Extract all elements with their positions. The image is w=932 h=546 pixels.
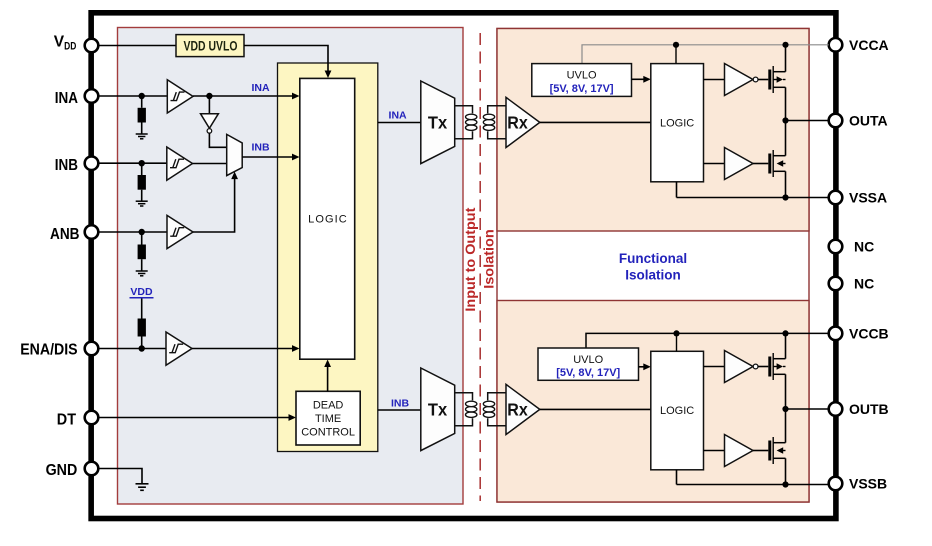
transformer A secondary (483, 106, 506, 139)
svg-text:Input to Output: Input to Output (463, 207, 478, 312)
svg-text:Rx: Rx (507, 113, 528, 133)
svg-text:DT: DT (57, 412, 77, 429)
transmitter Tx A (421, 81, 455, 164)
wire VCCA rail (582, 45, 829, 64)
label Functional Isolation (619, 251, 687, 283)
logic core block (yellow) (278, 63, 378, 452)
output channel B region (orange) (497, 301, 809, 503)
input-side functional block (blue) (118, 28, 464, 505)
transformer B secondary (483, 393, 506, 426)
svg-text:UVLO: UVLO (567, 70, 597, 82)
transistor Q2 low-side A (768, 150, 785, 177)
isolation barrier dashed line (479, 33, 481, 501)
svg-text:INB: INB (391, 398, 410, 410)
output-side outer box (497, 29, 809, 503)
svg-text:INA: INA (251, 82, 270, 94)
wire output node A (785, 45, 787, 72)
pin GND (46, 462, 99, 479)
wire ANB pulldown (141, 232, 143, 245)
wire inverter to mux (209, 133, 226, 147)
svg-text:CONTROL: CONTROL (301, 427, 355, 439)
ground INB (136, 201, 148, 206)
node OUTB (782, 406, 788, 412)
wire mux to LOGIC (242, 156, 295, 158)
svg-text:Functional: Functional (619, 251, 687, 266)
node VCCB-LOGIC B (673, 330, 679, 336)
resistor INB pulldown (138, 175, 146, 190)
wire Rx A to LOGIC A (540, 121, 651, 123)
ground INA (136, 134, 148, 139)
wire ANB pin to buffer (98, 231, 167, 233)
wire VDD pin to VDD UVLO (98, 45, 176, 47)
svg-text:OUTB: OUTB (849, 401, 889, 417)
wire LOGIC A to low driver (704, 163, 725, 165)
wire driver to gate A low (753, 163, 768, 165)
wire VSSB rail (677, 484, 829, 486)
buffer schmitt INB (167, 147, 193, 180)
wire UVLO A to LOGIC A (632, 78, 647, 80)
node ANB junction (139, 229, 145, 235)
wire OUTA (786, 120, 829, 122)
svg-text:OUTA: OUTA (849, 113, 888, 129)
pin NC bottom (829, 276, 875, 292)
transmitter Tx B (421, 368, 455, 451)
transistor Q3 high-side B (768, 353, 785, 380)
pin VCCB (829, 325, 889, 341)
ground ANB (136, 271, 148, 276)
pin VCCA (829, 37, 889, 53)
svg-text:INA: INA (55, 90, 78, 107)
pin VSSA (829, 190, 887, 206)
wire LOGIC B to high driver (704, 366, 725, 368)
wire INA pin to buffer (98, 95, 167, 97)
svg-text:LOGIC: LOGIC (660, 117, 694, 129)
wire OUTB (786, 408, 829, 410)
node VCCA-LOGIC A (673, 42, 679, 48)
svg-text:Tx: Tx (428, 113, 448, 133)
pin VSSB (829, 476, 887, 492)
wire dead time control to LOGIC (327, 364, 329, 391)
svg-text:Isolation: Isolation (482, 229, 497, 289)
pin ANB (50, 225, 98, 243)
wire INB pulldown (141, 163, 143, 175)
svg-text:Rx: Rx (507, 400, 528, 420)
node VCCA-drain A (782, 42, 788, 48)
wire LOGIC A top to VCCA rail (675, 45, 677, 64)
pin NC top (829, 239, 875, 255)
wire dead time control to Tx B (378, 409, 421, 411)
net VDD pullup (130, 286, 154, 298)
wire GND pin to ground (98, 469, 142, 484)
wire LOGIC A to high driver (704, 79, 725, 81)
block VDD UVLO U2 (176, 35, 244, 57)
svg-text:UVLO: UVLO (573, 354, 603, 366)
wire resistor to ground (141, 190, 143, 202)
svg-text:[5V, 8V, 17V]: [5V, 8V, 17V] (550, 83, 614, 95)
wire INA pulldown (141, 96, 143, 108)
svg-text:INA: INA (389, 110, 408, 122)
wire resistor to ground (141, 123, 143, 135)
buffer schmitt ANB (167, 215, 193, 248)
svg-text:VDD UVLO: VDD UVLO (184, 37, 238, 53)
svg-text:VDD: VDD (130, 286, 153, 298)
block LOGIC A (651, 64, 704, 182)
pin OUTB (829, 401, 889, 417)
node ENA junction (139, 345, 145, 351)
wire LOGIC to Tx A (378, 122, 421, 124)
transistor Q1 high-side A (768, 66, 785, 93)
node VSSA (782, 194, 788, 200)
driver A high (inverting) (725, 64, 758, 96)
svg-text:LOGIC: LOGIC (308, 214, 348, 226)
svg-text:VSSB: VSSB (849, 476, 887, 492)
svg-text:VCCB: VCCB (849, 325, 889, 341)
wire LOGIC B to low driver (704, 450, 725, 452)
svg-text:ENA/DIS: ENA/DIS (20, 341, 77, 358)
wire driver to gate A high (758, 79, 768, 81)
driver A low (725, 148, 754, 180)
wire driver to gate B low (753, 450, 768, 452)
svg-text:Isolation: Isolation (625, 268, 681, 283)
wire LOGIC B top to VCCB rail (676, 333, 678, 351)
buffer schmitt ENA/DIS (166, 332, 192, 365)
wire Rx B to LOGIC B (540, 408, 651, 410)
mux U4 (227, 134, 243, 175)
driver B high (inverting) (725, 351, 758, 383)
svg-text:DEAD: DEAD (313, 400, 344, 412)
wire LOGIC A bottom to VSSA (676, 182, 678, 198)
resistor ENA pullup (138, 319, 146, 337)
resistor ANB pulldown (138, 245, 146, 260)
inverter U3 (201, 114, 219, 134)
svg-text:LOGIC: LOGIC (660, 405, 694, 417)
node INB junction (139, 160, 145, 166)
node OUTA (782, 117, 788, 123)
svg-text:[5V, 8V, 17V]: [5V, 8V, 17V] (556, 367, 620, 379)
node VCCB-drain B (782, 330, 788, 336)
svg-text:INB: INB (55, 157, 78, 174)
wire VSSA rail (677, 197, 829, 199)
wire resistor to ENA node (141, 337, 143, 349)
wire UVLO B to LOGIC B (639, 366, 647, 368)
svg-text:Tx: Tx (428, 400, 448, 420)
block UVLO B (538, 348, 639, 380)
ground GND pin (136, 484, 149, 491)
wire ANB to mux select (193, 177, 235, 232)
svg-text:ANB: ANB (50, 226, 80, 243)
buffer schmitt INA (167, 80, 193, 113)
wire DT pin to dead time control (98, 417, 291, 419)
wire resistor to ground (141, 259, 143, 271)
svg-text:TIME: TIME (315, 413, 341, 425)
wire VDD to resistor (141, 299, 143, 319)
wire LOGIC B bottom to VSSB (676, 470, 678, 485)
block LOGIC main (300, 78, 355, 359)
transformer B primary (455, 393, 477, 426)
transformer A primary (455, 106, 477, 139)
svg-text:NC: NC (854, 239, 874, 255)
svg-text:NC: NC (854, 276, 874, 292)
wire INB pin to buffer (98, 162, 167, 164)
block LOGIC B (651, 351, 704, 470)
wire driver to gate B high (758, 366, 768, 368)
node INA after buffer (206, 93, 212, 99)
resistor INA pulldown (138, 108, 146, 123)
wire VDD UVLO to LOGIC top (244, 46, 328, 74)
wire ENA buffer to LOGIC (192, 348, 295, 350)
wire VCCB rail (586, 333, 829, 348)
svg-text:VSSA: VSSA (849, 190, 887, 206)
pin ENA/DIS (20, 341, 98, 358)
wire output node B (785, 333, 787, 358)
wire ENA/DIS pin to buffer (98, 348, 166, 350)
transistor Q4 low-side B (768, 437, 785, 464)
receiver Rx B (506, 384, 540, 434)
node VSSB (782, 481, 788, 487)
pin INA (55, 89, 98, 107)
driver B low (725, 435, 754, 467)
block DEAD TIME CONTROL (296, 391, 360, 445)
pin VDD (54, 33, 98, 52)
outer chip boundary (91, 13, 836, 519)
wire to inverter (208, 96, 210, 114)
pin OUTA (829, 113, 888, 129)
svg-text:GND: GND (46, 462, 78, 479)
svg-text:INB: INB (251, 142, 270, 154)
output channel A region (orange) (497, 29, 809, 232)
pin INB (55, 156, 98, 174)
svg-text:VCCA: VCCA (849, 37, 889, 53)
node INA junction (139, 93, 145, 99)
receiver Rx A (506, 97, 540, 147)
wire INB buffer to mux (193, 163, 227, 165)
wire INA buffer to LOGIC (193, 95, 295, 97)
pin DT (57, 411, 98, 429)
block UVLO A (532, 64, 632, 97)
